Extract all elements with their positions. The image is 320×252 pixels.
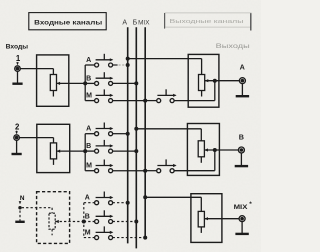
svg-text:M: M [86, 93, 92, 100]
label: switch A channel 2 [86, 126, 91, 133]
wiper wire channel 1 to switch rail [57, 82, 86, 85]
svg-text:Выходные каналы: Выходные каналы [170, 19, 244, 25]
ground input N [15, 211, 24, 222]
wiper wire channel 2 to switch rail [57, 150, 86, 153]
potentiometer output A [199, 75, 205, 97]
wire switch B channel 1 to bus [113, 82, 137, 84]
wire rail to switch B channel 1 [85, 82, 94, 84]
label: switch A channel N [85, 195, 90, 202]
svg-text:A: A [85, 195, 90, 202]
potentiometer channel 1 [50, 75, 56, 97]
junction dot bus M channel 1 [143, 99, 147, 103]
label: output A [240, 63, 245, 72]
svg-text:2: 2 [15, 123, 20, 132]
wire rail to switch A channel 1 [85, 64, 94, 66]
wire switch A channel N to bus [113, 202, 128, 204]
arrow under label 1 [16, 62, 19, 65]
potentiometer channel N [49, 213, 55, 235]
wire bus feed to output A [128, 59, 202, 75]
svg-text:M: M [85, 230, 91, 237]
wire rail to switch M channel 1 [85, 100, 94, 102]
svg-text:M: M [86, 163, 92, 170]
push switch MIX to output A [157, 89, 177, 102]
output connector B [238, 147, 244, 153]
wire ch2 M row to output B switch [145, 170, 156, 172]
ground input 2 [12, 140, 22, 154]
input connector 1 [15, 66, 21, 72]
label: input N [20, 195, 25, 202]
label: switch M channel 1 [86, 93, 92, 100]
potentiometer output B [198, 141, 204, 163]
wire bus feed to output MIX [145, 197, 201, 211]
wire output A bypass to switch [174, 81, 215, 101]
push switch B channel 1 [95, 72, 114, 85]
junction dot bus M channel 2 [143, 169, 147, 173]
label: input 1 [16, 54, 21, 63]
svg-text:Входные каналы: Входные каналы [34, 19, 103, 26]
ground output MIX [235, 222, 248, 234]
wire input 2 to channel box [19, 138, 53, 143]
label: switch M channel 2 [86, 163, 92, 170]
channel 2 box [37, 124, 70, 172]
label box: input channels title [29, 13, 106, 30]
wire switch M channel N to bus [113, 237, 146, 239]
svg-text:A: A [240, 63, 245, 72]
junction dot bus B channel N [134, 220, 138, 224]
push switch A channel N [95, 192, 114, 205]
svg-text:MIX: MIX [138, 19, 149, 26]
wiper wire output MIX to connector [204, 217, 239, 220]
wire switch M channel 1 to bus [113, 100, 146, 102]
svg-text:A: A [86, 126, 91, 133]
arrow under label 2 [15, 131, 18, 135]
wire rail to switch A channel 2 [85, 133, 94, 135]
junction dot bus A channel N [126, 201, 130, 205]
wire switch M channel 2 to bus [113, 170, 146, 172]
output connector A [239, 78, 245, 84]
svg-text:B: B [85, 214, 90, 221]
channel N box [37, 192, 70, 244]
junction dot output A wiper [213, 79, 217, 83]
potentiometer channel 2 [50, 143, 56, 165]
svg-text:Б: Б [133, 19, 138, 26]
wire output B bypass to switch [174, 150, 215, 171]
label: bus MIX [138, 19, 149, 26]
wire rail to switch B channel 2 [85, 150, 94, 152]
label: bus B [133, 19, 138, 26]
label: bus A [122, 19, 127, 26]
label: switch M channel N [85, 230, 91, 237]
ground output A [236, 84, 249, 96]
switch rail channel 1 [84, 65, 86, 101]
junction dot bus feed output B [134, 127, 138, 131]
wire input N to channel box [22, 208, 52, 214]
label: switch B channel N [85, 214, 90, 221]
arrow under label N [19, 201, 22, 204]
wiper wire channel N to switch rail [55, 220, 84, 223]
ground output B [235, 153, 248, 166]
label: inputs (Входы) [6, 43, 29, 50]
junction dot bus feed output A [126, 57, 130, 61]
bus MIX vertical wire [144, 27, 146, 237]
push switch M channel N [95, 226, 114, 239]
push switch B channel N [95, 210, 114, 223]
wire switch B channel N to bus [113, 221, 137, 223]
output connector MIX [239, 216, 245, 222]
switch rail channel 2 [84, 134, 86, 171]
junction dot bus B channel 1 [134, 81, 138, 85]
label: switch B channel 2 [86, 143, 91, 150]
switch rail channel N [83, 203, 85, 238]
push switch MIX to output B [157, 159, 177, 172]
label: input 2 [15, 123, 20, 132]
push switch A channel 2 [95, 123, 114, 136]
svg-text:А: А [122, 19, 127, 26]
junction dot bus M channel N [143, 236, 147, 240]
svg-text:Выходы: Выходы [216, 44, 250, 50]
bus A vertical wire [127, 27, 129, 243]
label: outputs (Выходы, faint) [216, 44, 250, 50]
svg-text:Входы: Входы [6, 43, 29, 50]
svg-text:B: B [239, 133, 244, 142]
push switch M channel 1 [95, 89, 114, 102]
wire switch A channel 1 to bus (faded) [113, 64, 127, 66]
output channel MIX box [191, 194, 222, 243]
wire bus feed to output B [136, 129, 201, 141]
output channel B box [187, 124, 219, 176]
wire rail to switch A channel N [84, 202, 95, 204]
input connector N [18, 206, 21, 209]
junction dot output B wiper [213, 148, 217, 152]
svg-text:N: N [20, 195, 25, 202]
label: output B [239, 133, 244, 142]
svg-text:A: A [86, 57, 91, 64]
push switch A channel 1 [95, 54, 114, 67]
wire ch1 M row to output A switch [145, 100, 156, 102]
junction dot bus A channel 1 [126, 63, 130, 67]
wiper wire output A to connector [205, 79, 240, 82]
junction dot channel 1 wiper/rail [83, 81, 87, 85]
label: switch B channel 1 [86, 75, 91, 82]
wire rail to switch M channel N [84, 237, 95, 239]
label: switch A channel 1 [86, 57, 91, 64]
junction dot channel 2 wiper/rail [83, 149, 87, 153]
wire switch B channel 2 to bus [113, 150, 137, 152]
wire switch A channel 2 to bus [113, 133, 128, 135]
output channel A box [188, 54, 219, 107]
ground input 1 [12, 71, 22, 83]
svg-text:MIX: MIX [234, 204, 249, 211]
wiper wire output B to connector [204, 148, 238, 151]
push switch B channel 2 [95, 140, 114, 153]
junction dot bus feed output MIX [143, 195, 147, 199]
label box: output channels title (faint) [165, 13, 251, 31]
svg-text:1: 1 [16, 54, 21, 63]
label: output MIX [234, 201, 253, 211]
svg-text:B: B [86, 75, 91, 82]
wire rail to switch M channel 2 [85, 170, 94, 172]
channel 1 box [37, 55, 69, 106]
wire rail to switch B channel N [84, 221, 95, 223]
input connector 2 [14, 135, 20, 141]
svg-text:B: B [86, 143, 91, 150]
junction dot bus A channel 2 [126, 132, 130, 136]
push switch M channel 2 [95, 160, 114, 173]
bus B vertical wire [135, 27, 137, 248]
wire input 1 to channel box [20, 69, 53, 75]
potentiometer output MIX [198, 211, 204, 233]
junction dot bus B channel 2 [134, 149, 138, 153]
junction dot channel N wiper/rail [82, 220, 86, 224]
